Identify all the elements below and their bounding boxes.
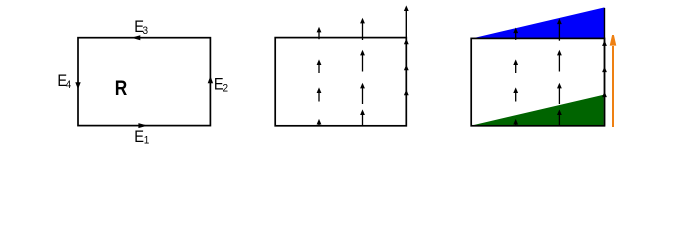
fig2 col1 arrow row4 (crosses bottom edge) xyxy=(317,119,322,126)
svg-text:3: 3 xyxy=(143,24,149,37)
fig2 col2 arrow row4 (crosses bottom edge) xyxy=(360,109,365,126)
fig2 col2 arrow row2 xyxy=(360,50,365,72)
fig2 col1 arrow row1 (crosses top edge) xyxy=(317,27,322,39)
fig3 col2 arrow row1 (inside blue) xyxy=(557,19,562,41)
fig2 col2 arrow row3 xyxy=(360,83,365,104)
green bottom flux triangle xyxy=(471,95,603,126)
svg-text:2: 2 xyxy=(223,82,229,95)
arrowhead E3 (left-pointing, top edge) xyxy=(131,35,140,40)
fig3 col1 arrow row4 (inside green) xyxy=(513,119,518,126)
fig2 col3 stacked arrows on right edge xyxy=(404,5,409,125)
fig2 col1 arrow row2 xyxy=(317,59,322,73)
orange resultant flux arrow xyxy=(610,35,617,127)
arrowhead E4 (down-pointing, left edge) xyxy=(75,82,80,89)
fig2 col2 arrow row1 (crosses top edge) xyxy=(360,18,365,40)
arrowhead E1 (right-pointing, bottom edge) xyxy=(138,123,147,128)
fig3 col3 stacked arrows on right edge xyxy=(602,8,607,126)
fig3 col2 arrow row4 (inside green) xyxy=(557,109,562,126)
fig3 col1 arrow row3 xyxy=(513,87,518,101)
fig3 col2 arrow row2 xyxy=(557,50,562,72)
fig3 col1 arrow row1 (inside blue) xyxy=(513,28,518,40)
svg-text:E: E xyxy=(134,128,144,146)
fig3 col1 arrow row2 xyxy=(513,59,518,73)
figure 1: region R rectangle xyxy=(78,38,210,126)
fig2 col1 arrow row3 xyxy=(317,87,322,101)
figure 2: rectangle with vector field arrows xyxy=(275,38,406,126)
svg-text:4: 4 xyxy=(66,78,72,91)
svg-text:R: R xyxy=(115,76,128,100)
fig3 col2 arrow row3 xyxy=(557,83,562,104)
svg-text:1: 1 xyxy=(144,134,150,147)
fig3 rectangle outline xyxy=(471,38,604,125)
arrowhead E2 (up-pointing, right edge) xyxy=(208,76,213,83)
blue top flux triangle xyxy=(471,7,604,38)
